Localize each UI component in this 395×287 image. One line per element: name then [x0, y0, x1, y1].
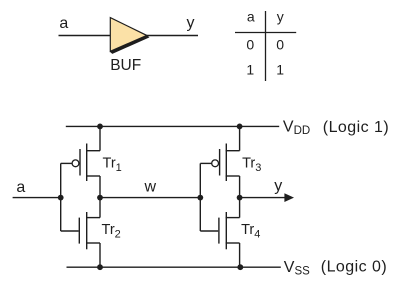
svg-text:1: 1 [276, 62, 284, 78]
svg-text:Tr1: Tr1 [103, 156, 122, 174]
node VDD junction 2 [237, 124, 243, 130]
node VDD junction 1 [97, 124, 103, 130]
transistor Tr3 (PMOS) [200, 126, 239, 197]
svg-text:VDD: VDD [283, 118, 310, 137]
node input junction [58, 195, 64, 201]
svg-text:(Logic 1): (Logic 1) [323, 119, 389, 136]
wire buffer input [59, 35, 111, 37]
buffer BUF [110, 18, 148, 54]
svg-text:BUF: BUF [110, 57, 141, 74]
transistor Tr2 (NMOS) [61, 198, 100, 268]
truth table horizontal line [235, 32, 296, 34]
transistor Tr4 (NMOS) [200, 198, 239, 268]
output arrowhead [284, 193, 294, 202]
truth table vertical line [265, 11, 267, 81]
wire node w [100, 197, 200, 199]
node VSS junction 1 [97, 264, 103, 270]
node w junction right [197, 195, 203, 201]
svg-text:y: y [277, 9, 284, 25]
svg-text:Tr3: Tr3 [242, 156, 261, 174]
svg-text:VSS: VSS [284, 259, 310, 278]
svg-text:0: 0 [276, 37, 284, 53]
node VSS junction 2 [237, 264, 243, 270]
svg-text:y: y [274, 177, 282, 194]
svg-text:(Logic 0): (Logic 0) [321, 259, 387, 276]
svg-text:Tr4: Tr4 [241, 222, 260, 240]
VDD rail [66, 125, 279, 127]
wire output y [240, 197, 285, 199]
svg-text:a: a [59, 15, 68, 32]
svg-text:a: a [16, 179, 25, 196]
wire buffer output [147, 35, 198, 37]
truth table [235, 9, 296, 82]
wire gate vertical inverter1 [60, 163, 62, 231]
svg-text:0: 0 [246, 37, 254, 53]
svg-text:Tr2: Tr2 [102, 222, 121, 240]
svg-text:1: 1 [246, 62, 254, 78]
svg-text:w: w [144, 179, 157, 196]
VSS rail [67, 266, 281, 268]
svg-text:y: y [187, 15, 195, 32]
wire circuit input [13, 197, 61, 199]
node output junction [237, 195, 243, 201]
transistor Tr1 (PMOS) [61, 126, 100, 197]
svg-text:a: a [247, 9, 255, 25]
node w junction left [97, 195, 103, 201]
wire gate vertical inverter2 [199, 163, 201, 231]
